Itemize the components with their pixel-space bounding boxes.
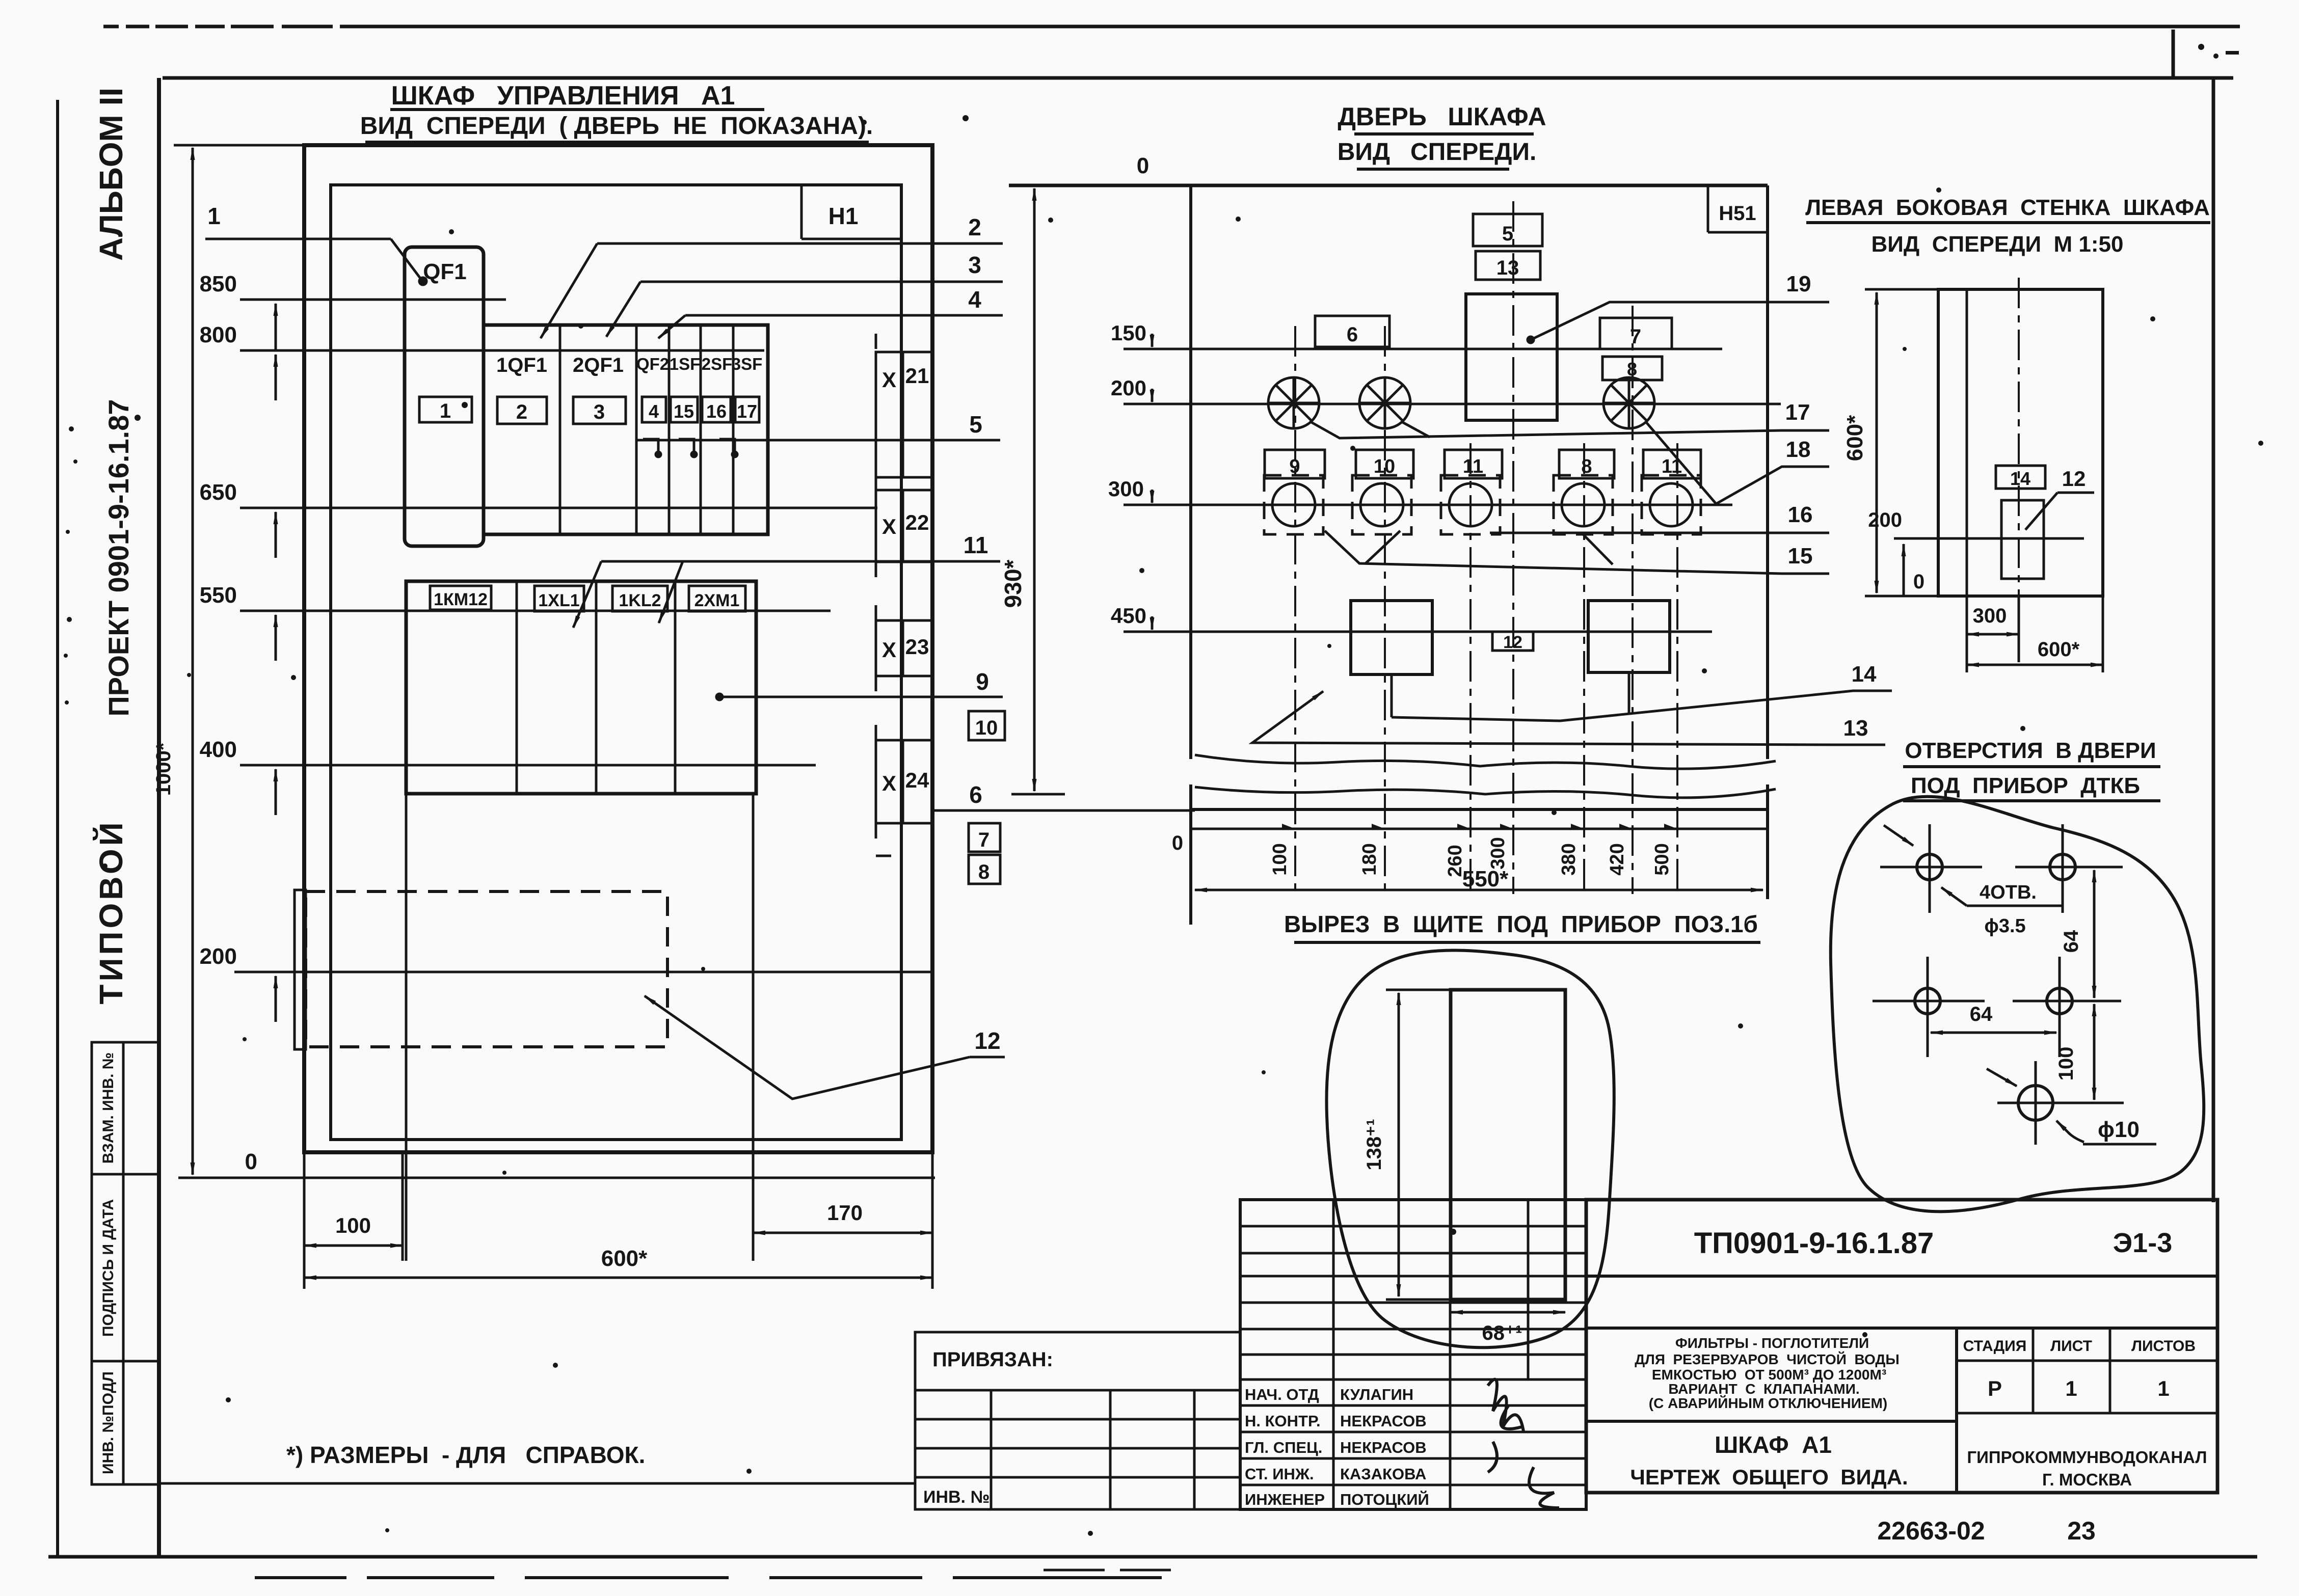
svg-text:17: 17	[1785, 400, 1810, 425]
svg-text:1SF: 1SF	[670, 355, 701, 373]
svg-text:10: 10	[975, 717, 998, 739]
svg-text:8: 8	[978, 861, 990, 883]
svg-text:600*: 600*	[2038, 638, 2080, 661]
svg-text:ЛИСТОВ: ЛИСТОВ	[2131, 1338, 2196, 1355]
svg-text:68⁺¹: 68⁺¹	[1482, 1322, 1522, 1344]
svg-text:15: 15	[674, 401, 694, 422]
svg-text:ИНВ. №ПОДЛ: ИНВ. №ПОДЛ	[100, 1371, 117, 1474]
svg-text:0: 0	[245, 1149, 257, 1174]
svg-text:22663-02: 22663-02	[1877, 1517, 1985, 1545]
svg-text:12: 12	[2062, 467, 2086, 491]
svg-text:100: 100	[2055, 1047, 2077, 1081]
svg-text:1КМ12: 1КМ12	[434, 590, 488, 609]
svg-text:18: 18	[1786, 437, 1811, 462]
svg-text:ФИЛЬТРЫ - ПОГЛОТИТЕЛИ: ФИЛЬТРЫ - ПОГЛОТИТЕЛИ	[1675, 1335, 1869, 1351]
svg-text:X: X	[882, 368, 896, 392]
svg-text:*) РАЗМЕРЫ - ДЛЯ СПРАВОК.: *) РАЗМЕРЫ - ДЛЯ СПРАВОК.	[286, 1442, 645, 1468]
svg-text:23: 23	[905, 635, 929, 659]
svg-text:ВИД СПЕРЕДИ.: ВИД СПЕРЕДИ.	[1338, 139, 1537, 166]
svg-text:ШКАФ УПРАВЛЕНИЯ А1: ШКАФ УПРАВЛЕНИЯ А1	[391, 81, 735, 111]
svg-text:НЕКРАСОВ: НЕКРАСОВ	[1340, 1412, 1427, 1430]
svg-text:4: 4	[649, 401, 659, 422]
svg-text:ВИД СПЕРЕДИ М 1:50: ВИД СПЕРЕДИ М 1:50	[1872, 232, 2124, 257]
svg-text:0: 0	[1137, 153, 1149, 178]
svg-text:23: 23	[2067, 1517, 2096, 1545]
svg-text:2: 2	[968, 214, 981, 240]
svg-text:Р: Р	[1988, 1376, 2002, 1400]
svg-text:850: 850	[200, 272, 237, 296]
svg-text:138⁺¹: 138⁺¹	[1363, 1119, 1385, 1170]
svg-text:Н1: Н1	[828, 203, 859, 229]
svg-text:1: 1	[2157, 1376, 2169, 1400]
svg-text:7: 7	[978, 829, 990, 851]
svg-text:300: 300	[1487, 837, 1509, 869]
svg-text:ИНВ. №: ИНВ. №	[923, 1487, 990, 1507]
svg-text:1: 1	[2065, 1376, 2077, 1400]
svg-text:5: 5	[1502, 223, 1513, 245]
svg-text:1: 1	[440, 400, 451, 422]
svg-text:X: X	[882, 515, 896, 538]
svg-text:ВИД СПЕРЕДИ ( ДВЕРЬ НЕ ПОК: ВИД СПЕРЕДИ ( ДВЕРЬ НЕ ПОКАЗАНА).	[360, 113, 873, 140]
svg-text:14: 14	[2010, 468, 2030, 489]
svg-text:ДЛЯ РЕЗЕРВУАРОВ ЧИСТОЙ ВОДЫ: ДЛЯ РЕЗЕРВУАРОВ ЧИСТОЙ ВОДЫ	[1635, 1351, 1900, 1367]
svg-text:Н. КОНТР.: Н. КОНТР.	[1245, 1412, 1321, 1430]
svg-text:0: 0	[1913, 571, 1924, 593]
svg-text:13: 13	[1843, 716, 1868, 741]
svg-text:400: 400	[200, 737, 237, 762]
svg-text:ЛИСТ: ЛИСТ	[2050, 1338, 2092, 1355]
svg-text:2: 2	[516, 401, 527, 423]
svg-text:7: 7	[1630, 326, 1641, 348]
svg-text:930*: 930*	[1000, 560, 1026, 608]
svg-text:64: 64	[1970, 1003, 1993, 1025]
svg-text:АЛЬБОМ II: АЛЬБОМ II	[93, 88, 129, 261]
svg-text:3SF: 3SF	[732, 355, 763, 373]
svg-text:600*: 600*	[1842, 415, 1867, 461]
svg-text:Г. МОСКВА: Г. МОСКВА	[2042, 1470, 2132, 1489]
svg-text:6: 6	[969, 781, 982, 808]
svg-text:600*: 600*	[601, 1246, 648, 1271]
svg-text:4ОТВ.: 4ОТВ.	[1980, 882, 2037, 903]
svg-text:2ХМ1: 2ХМ1	[694, 591, 740, 610]
svg-text:ТП0901-9-16.1.87: ТП0901-9-16.1.87	[1694, 1227, 1934, 1260]
svg-text:1000*: 1000*	[152, 742, 175, 796]
svg-text:ИНЖЕНЕР: ИНЖЕНЕР	[1245, 1491, 1325, 1508]
svg-text:QF1: QF1	[423, 259, 467, 284]
svg-text:3: 3	[968, 252, 981, 278]
svg-text:ЕМКОСТЬЮ ОТ 500М³ ДО 1200М³: ЕМКОСТЬЮ ОТ 500М³ ДО 1200М³	[1652, 1367, 1886, 1383]
svg-text:5: 5	[969, 411, 982, 438]
svg-text:2QF1: 2QF1	[573, 354, 624, 376]
svg-text:200: 200	[200, 944, 237, 969]
svg-text:500: 500	[1651, 843, 1673, 875]
svg-text:170: 170	[827, 1201, 863, 1225]
svg-text:КУЛАГИН: КУЛАГИН	[1340, 1386, 1413, 1403]
svg-text:300: 300	[1973, 605, 2007, 627]
svg-text:ГИПРОКОММУНВОДОКАНАЛ: ГИПРОКОММУНВОДОКАНАЛ	[1967, 1448, 2207, 1467]
svg-text:ϕ3.5: ϕ3.5	[1984, 915, 2025, 937]
svg-text:ПОДПИСЬ И ДАТА: ПОДПИСЬ И ДАТА	[100, 1199, 117, 1337]
svg-text:550*: 550*	[1462, 867, 1509, 891]
svg-text:СТАДИЯ: СТАДИЯ	[1963, 1338, 2027, 1355]
svg-text:180: 180	[1359, 843, 1380, 875]
svg-text:ТИПОВОЙ: ТИПОВОЙ	[92, 819, 129, 1004]
svg-text:100: 100	[1269, 843, 1291, 875]
svg-text:1KL2: 1KL2	[619, 591, 661, 610]
svg-text:4: 4	[968, 286, 981, 313]
svg-text:12: 12	[1503, 633, 1522, 652]
svg-text:13: 13	[1496, 257, 1519, 279]
svg-text:650: 650	[200, 480, 237, 505]
svg-text:1QF1: 1QF1	[496, 354, 547, 376]
svg-text:16: 16	[706, 401, 727, 422]
svg-text:2SF: 2SF	[702, 355, 733, 373]
svg-text:64: 64	[2060, 930, 2082, 953]
svg-text:ШКАФ А1: ШКАФ А1	[1715, 1431, 1832, 1458]
svg-text:ПРИВЯЗАН:: ПРИВЯЗАН:	[932, 1348, 1053, 1371]
svg-text:Н51: Н51	[1719, 202, 1756, 225]
svg-text:1: 1	[207, 203, 221, 229]
svg-text:ПОТОЦКИЙ: ПОТОЦКИЙ	[1340, 1490, 1429, 1508]
svg-text:ВЗАМ. ИНВ. №: ВЗАМ. ИНВ. №	[100, 1052, 117, 1164]
svg-text:ПРОЕКТ 0901-9-16.1.87: ПРОЕКТ 0901-9-16.1.87	[102, 399, 135, 717]
svg-text:15: 15	[1788, 544, 1813, 569]
svg-text:ϕ10: ϕ10	[2098, 1117, 2140, 1142]
svg-text:450: 450	[1111, 604, 1146, 628]
svg-text:НАЧ. ОТД: НАЧ. ОТД	[1245, 1386, 1319, 1403]
svg-text:200: 200	[1868, 509, 1902, 531]
svg-text:X: X	[882, 638, 896, 662]
svg-text:ГЛ. СПЕЦ.: ГЛ. СПЕЦ.	[1245, 1439, 1322, 1456]
svg-text:ЛЕВАЯ БОКОВАЯ СТЕНКА ШКАФА: ЛЕВАЯ БОКОВАЯ СТЕНКА ШКАФА	[1805, 195, 2210, 220]
svg-text:ВАРИАНТ С КЛАПАНАМИ.: ВАРИАНТ С КЛАПАНАМИ.	[1668, 1381, 1859, 1397]
svg-text:300: 300	[1108, 477, 1144, 501]
svg-text:ДВЕРЬ ШКАФА: ДВЕРЬ ШКАФА	[1338, 102, 1546, 131]
svg-text:19: 19	[1786, 272, 1811, 296]
svg-text:420: 420	[1607, 843, 1628, 875]
svg-text:ЧЕРТЕЖ ОБЩЕГО ВИДА.: ЧЕРТЕЖ ОБЩЕГО ВИДА.	[1630, 1465, 1908, 1489]
svg-text:11: 11	[964, 532, 988, 558]
svg-text:17: 17	[737, 401, 757, 422]
svg-text:150: 150	[1111, 321, 1146, 345]
svg-text:9: 9	[976, 668, 989, 695]
svg-text:0: 0	[1172, 832, 1183, 854]
svg-text:Э1-3: Э1-3	[2113, 1228, 2172, 1258]
svg-text:ПОД ПРИБОР ДТКБ: ПОД ПРИБОР ДТКБ	[1911, 773, 2140, 798]
svg-text:800: 800	[200, 322, 237, 347]
svg-text:200: 200	[1111, 376, 1146, 400]
svg-text:КАЗАКОВА: КАЗАКОВА	[1340, 1465, 1426, 1483]
svg-text:14: 14	[1852, 662, 1877, 687]
svg-text:3: 3	[594, 401, 605, 423]
svg-text:380: 380	[1558, 843, 1580, 875]
svg-text:550: 550	[200, 583, 237, 608]
svg-text:(С АВАРИЙНЫМ ОТКЛЮЧЕНИЕМ): (С АВАРИЙНЫМ ОТКЛЮЧЕНИЕМ)	[1649, 1395, 1887, 1411]
svg-text:16: 16	[1788, 502, 1813, 527]
svg-text:QF2: QF2	[636, 355, 669, 373]
svg-text:6: 6	[1347, 323, 1358, 346]
svg-text:21: 21	[905, 364, 929, 388]
svg-text:ОТВЕРСТИЯ В ДВЕРИ: ОТВЕРСТИЯ В ДВЕРИ	[1905, 738, 2156, 763]
svg-text:22: 22	[905, 510, 929, 534]
svg-text:1XL1: 1XL1	[538, 591, 579, 610]
svg-text:СТ. ИНЖ.: СТ. ИНЖ.	[1245, 1465, 1314, 1483]
svg-text:НЕКРАСОВ: НЕКРАСОВ	[1340, 1439, 1427, 1456]
svg-text:12: 12	[974, 1027, 1000, 1054]
svg-text:ВЫРЕЗ В ЩИТЕ ПОД ПРИБОР П: ВЫРЕЗ В ЩИТЕ ПОД ПРИБОР ПОЗ.1б	[1284, 911, 1758, 937]
svg-text:24: 24	[905, 768, 929, 792]
svg-text:X: X	[882, 771, 896, 795]
svg-text:100: 100	[335, 1213, 371, 1237]
